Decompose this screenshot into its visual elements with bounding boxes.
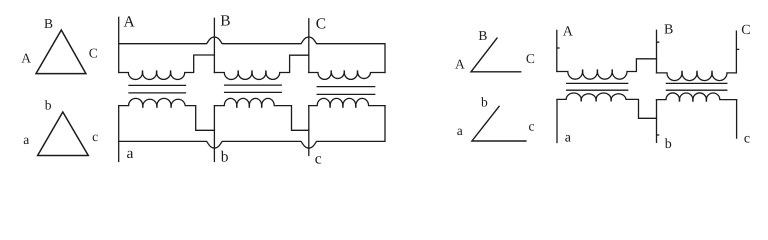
wire top bus with crossovers at B and C [119,37,385,73]
svg-text:B: B [478,28,487,43]
svg-text:b: b [221,148,229,165]
winding right T2 secondary [657,93,737,100]
node b (middle section terminal) [213,106,215,162]
winding right T2 primary [657,73,737,81]
winding T1 primary [119,55,215,79]
svg-text:C: C [741,23,750,38]
svg-text:B: B [44,16,53,31]
winding right T1 secondary [557,93,657,118]
svg-text:c: c [92,129,98,144]
svg-text:b: b [45,97,52,112]
core right T2 [666,83,726,90]
winding T1 secondary [119,98,215,130]
core T2 [225,85,282,92]
node B (right section terminal) [657,30,659,73]
svg-text:b: b [481,94,488,109]
winding cusp nubs secondaries [143,99,707,107]
wire bottom bus with crossovers at b and c [119,106,385,149]
node c (middle section terminal) [308,106,310,156]
svg-text:a: a [457,123,463,138]
winding T3 primary [309,73,385,80]
svg-text:c: c [529,119,535,134]
node A (middle section terminal) [118,17,120,72]
svg-text:a: a [127,145,134,162]
node A (right section terminal) [557,30,559,71]
svg-text:a: a [23,132,29,147]
core T1 [129,85,186,93]
core right T1 [567,83,628,90]
winding cusp nubs primaries [143,70,713,73]
svg-text:a: a [565,130,572,145]
svg-text:b: b [665,137,672,152]
node a (middle section terminal) [118,106,120,162]
node B (middle section terminal) [213,18,215,72]
svg-text:c: c [315,151,322,168]
svg-text:B: B [664,23,673,38]
svg-text:A: A [455,56,465,71]
node a (right section terminal) [556,100,558,143]
svg-text:C: C [526,51,535,66]
angle symbol primary (right) [471,38,521,72]
core T3 [317,87,375,95]
svg-text:c: c [744,131,750,146]
svg-text:A: A [21,50,31,65]
winding T3 secondary [309,98,385,105]
node C (middle section terminal) [308,19,310,73]
winding T2 secondary [214,98,308,130]
winding T2 primary [214,55,308,79]
svg-text:A: A [563,24,574,39]
angle symbol secondary (right) [472,106,526,141]
winding right T1 primary [557,59,657,79]
svg-text:C: C [316,15,326,32]
node c (right section terminal) [736,100,738,138]
svg-text:B: B [220,13,230,30]
node b (right section terminal) [657,100,659,143]
delta symbol secondary (left) [38,112,89,156]
svg-text:A: A [124,14,136,31]
svg-text:C: C [89,46,98,61]
delta symbol primary (left) [36,30,86,74]
node C (right section terminal) [736,31,738,73]
